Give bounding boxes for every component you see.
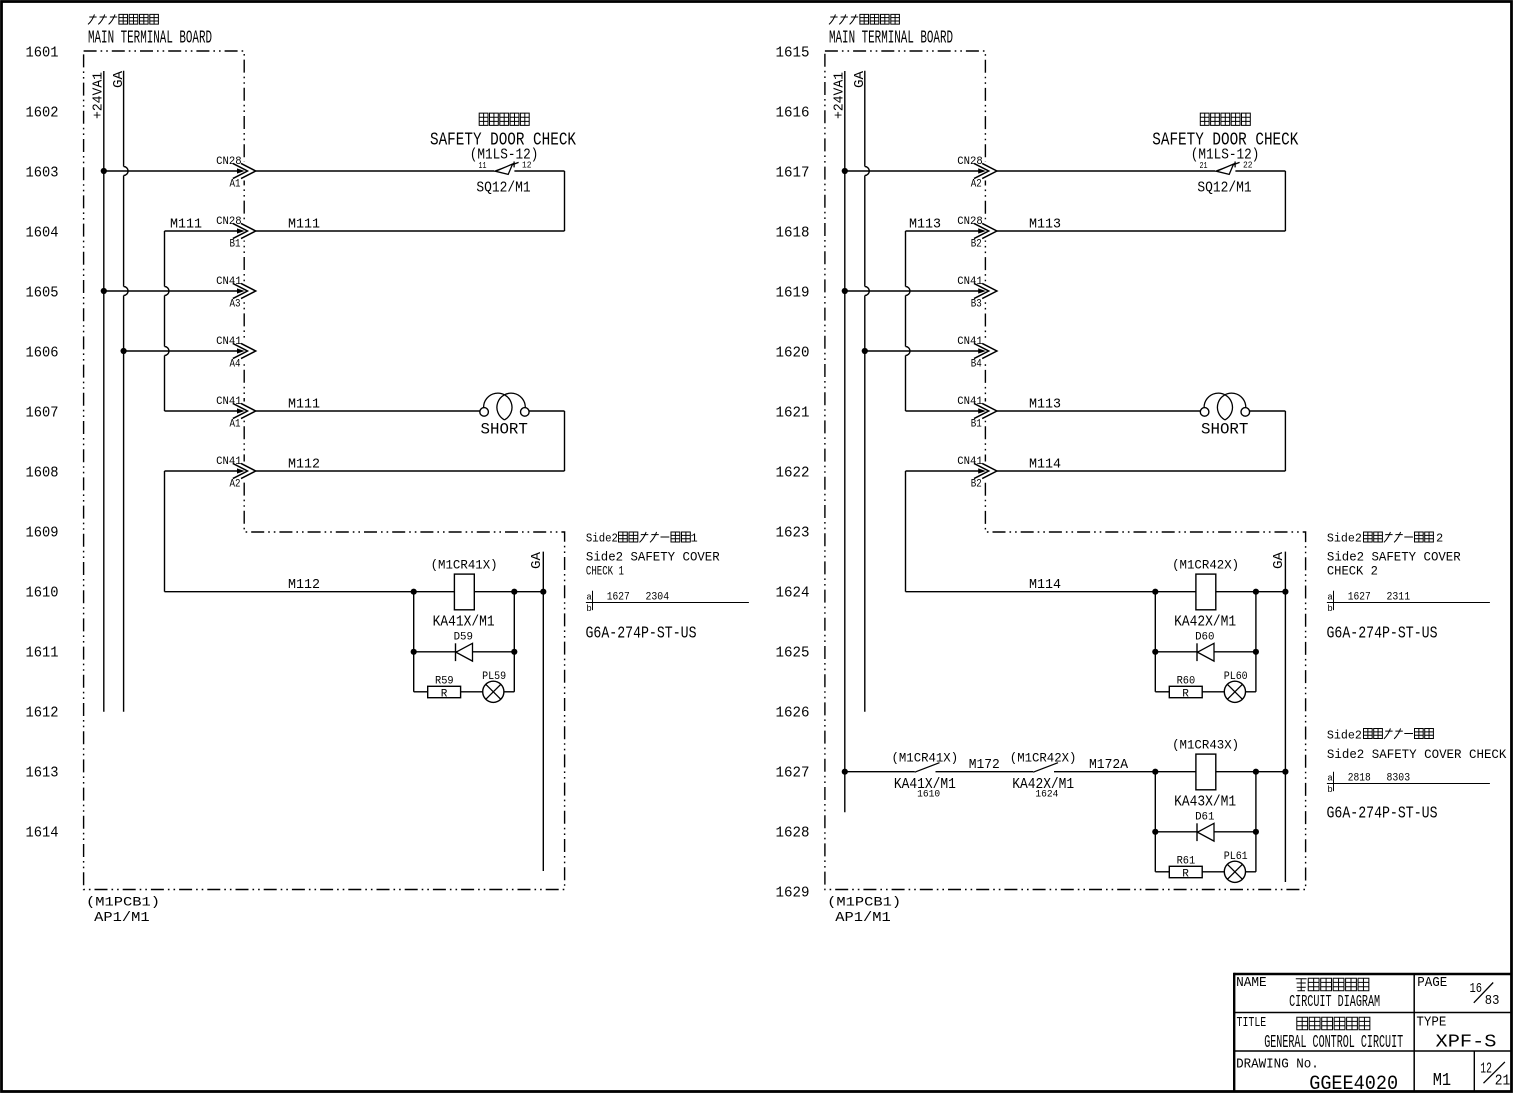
wire lamp to right branch — [1246, 871, 1256, 873]
wire 1622 field side — [997, 470, 1285, 472]
svg-text:1617: 1617 — [776, 165, 810, 182]
wire loop right vertical 1621-1622 — [1284, 411, 1286, 471]
wire 1617 board side — [845, 170, 986, 172]
svg-text:(M1CR42X): (M1CR42X) — [1172, 559, 1239, 573]
svg-text:1609: 1609 — [26, 525, 59, 542]
connector CN41 pin A1 — [233, 402, 256, 421]
svg-text:XPF-S: XPF-S — [1436, 1033, 1497, 1053]
board outline M1PCB1 right (dash-dot) — [825, 51, 1306, 890]
wire lamp to right branch — [1246, 691, 1256, 693]
connector CN28 pin B2 — [974, 222, 997, 241]
svg-text:MAIN TERMINAL BOARD: MAIN TERMINAL BOARD — [88, 29, 212, 49]
junction dot 1619 +24VA1 — [842, 288, 848, 294]
svg-text:M113: M113 — [1029, 397, 1061, 413]
svg-text:KA43X/M1: KA43X/M1 — [1174, 794, 1236, 811]
svg-text:CN28: CN28 — [957, 216, 983, 228]
svg-text:TYPE: TYPE — [1416, 1016, 1446, 1031]
label safety door check kanji left — [479, 113, 529, 125]
svg-text:GA: GA — [111, 70, 127, 88]
svg-text:1627: 1627 — [607, 592, 630, 604]
label circuit diagram kanji — [1296, 978, 1369, 991]
wire 1619 board side — [845, 290, 986, 292]
svg-text:83: 83 — [1485, 993, 1500, 1009]
svg-text:CHECK 2: CHECK 2 — [1327, 564, 1378, 579]
svg-text:1624: 1624 — [776, 585, 810, 602]
wire lamp to right branch — [504, 691, 514, 693]
svg-text:GA: GA — [852, 70, 868, 88]
svg-text:(M1LS-12): (M1LS-12) — [1191, 147, 1260, 164]
connector CN41 pin B3 — [974, 282, 997, 301]
svg-text:1624: 1624 — [1035, 790, 1058, 801]
svg-text:PAGE: PAGE — [1417, 976, 1447, 991]
svg-text:M111: M111 — [288, 217, 320, 233]
svg-text:M112: M112 — [288, 457, 320, 473]
sheet number 12/21 — [1480, 1062, 1510, 1090]
svg-text:1603: 1603 — [26, 165, 59, 182]
svg-text:SQ12/M1: SQ12/M1 — [1197, 181, 1251, 197]
wire node M111 branch vertical — [165, 231, 170, 411]
connector CN41 pin B4 — [974, 342, 997, 361]
svg-text:TITLE: TITLE — [1237, 1016, 1267, 1031]
contact KA41X/M1 (M1CR41X) — [915, 763, 940, 773]
svg-text:B2: B2 — [971, 478, 982, 490]
svg-text:b: b — [1327, 785, 1332, 795]
connector CN28 pin B1 — [233, 222, 256, 241]
contact KA42X/M1 (M1CR42X) — [1033, 763, 1058, 773]
svg-text:KA42X/M1: KA42X/M1 — [1174, 614, 1236, 631]
diode D60 — [1196, 643, 1198, 661]
svg-text:Side2: Side2 — [1327, 532, 1362, 546]
svg-text:(M1CR41X): (M1CR41X) — [892, 752, 959, 766]
svg-text:a: a — [1327, 593, 1333, 603]
svg-text:1618: 1618 — [776, 225, 810, 242]
svg-text:M114: M114 — [1029, 577, 1061, 593]
wire (M1CR43X) branch verticals — [1154, 772, 1156, 872]
svg-text:R59: R59 — [435, 676, 454, 688]
svg-text:1611: 1611 — [26, 645, 59, 662]
svg-text:1602: 1602 — [26, 105, 59, 122]
wire 1621 field side — [997, 410, 1201, 412]
svg-text:1607: 1607 — [26, 405, 59, 422]
svg-text:1612: 1612 — [26, 705, 59, 722]
svg-text:G6A-274P-ST-US: G6A-274P-ST-US — [1327, 625, 1438, 644]
svg-text:1610: 1610 — [26, 585, 59, 602]
wire 1608 field side — [256, 470, 565, 472]
junction dots (M1CR41X) — [411, 589, 417, 595]
svg-text:B1: B1 — [971, 418, 982, 430]
wire 1618 board side — [906, 230, 986, 232]
cross reference 1627 2304 — [586, 591, 749, 614]
svg-text:1629: 1629 — [776, 885, 810, 902]
svg-text:M172A: M172A — [1089, 757, 1129, 773]
wire node M112 vertical to 1610 — [164, 471, 166, 592]
svg-text:R: R — [441, 689, 448, 701]
svg-text:NAME: NAME — [1236, 976, 1267, 991]
svg-text:1610: 1610 — [917, 790, 940, 801]
svg-text:21: 21 — [1495, 1074, 1511, 1090]
svg-text:M113: M113 — [1029, 217, 1061, 233]
connector CN28 pin A1 — [233, 162, 256, 181]
lamp PL59 — [461, 691, 483, 693]
svg-text:A1: A1 — [230, 178, 241, 190]
label general control circuit kanji — [1297, 1017, 1370, 1030]
svg-text:2818: 2818 — [1348, 773, 1371, 785]
svg-text:B1: B1 — [230, 238, 241, 250]
wire 1603 field side to switch — [256, 170, 495, 172]
junction dots (M1CR43X) — [1152, 769, 1158, 775]
limit switch SQ12/M1 right — [1216, 162, 1239, 175]
svg-text:R60: R60 — [1177, 676, 1196, 688]
svg-text:16: 16 — [1470, 981, 1483, 997]
label Side2 cover check 2 kanji — [1327, 532, 1443, 546]
svg-text:R61: R61 — [1177, 856, 1196, 868]
svg-text:AP1/M1: AP1/M1 — [835, 911, 891, 926]
svg-text:M113: M113 — [909, 217, 941, 233]
wire diode row — [1155, 651, 1256, 653]
cross reference 1627 2311 — [1327, 591, 1490, 614]
svg-text:M172: M172 — [969, 757, 1000, 773]
wire 1618 field side — [997, 230, 1285, 232]
svg-text:(M1LS-12): (M1LS-12) — [470, 147, 539, 164]
svg-text:M111: M111 — [288, 397, 320, 413]
connector CN41 pin B1 — [974, 402, 997, 421]
svg-text:A3: A3 — [230, 298, 241, 310]
lamp PL60 — [1202, 691, 1224, 693]
svg-text:M1: M1 — [1433, 1070, 1451, 1091]
svg-text:A4: A4 — [230, 358, 241, 370]
svg-text:2311: 2311 — [1387, 592, 1411, 604]
svg-text:+24VA1: +24VA1 — [832, 72, 848, 119]
svg-text:KA41X/M1: KA41X/M1 — [433, 614, 495, 631]
page number 16/83 — [1470, 981, 1500, 1009]
svg-text:1604: 1604 — [26, 225, 59, 242]
svg-text:CN41: CN41 — [957, 456, 983, 468]
svg-text:1616: 1616 — [776, 105, 810, 122]
svg-text:D60: D60 — [1195, 632, 1214, 644]
svg-text:CIRCUIT DIAGRAM: CIRCUIT DIAGRAM — [1289, 993, 1380, 1012]
svg-text:R: R — [1182, 869, 1189, 881]
net GA stub left — [542, 552, 544, 871]
junction dot 1624 GA — [1282, 589, 1288, 595]
wire (M1CR42X) branch verticals — [1154, 592, 1156, 692]
wire 1617 field side to switch — [997, 170, 1216, 172]
wire short to corner — [529, 410, 565, 412]
svg-text:CN41: CN41 — [957, 396, 983, 408]
wire switch to corner 1603 — [514, 170, 564, 172]
svg-text:B2: B2 — [971, 238, 982, 250]
wire diode row — [1155, 831, 1256, 833]
wire loop right vertical 1607-1608 — [564, 411, 566, 471]
power bus +24VA1 right — [844, 71, 846, 812]
svg-text:a: a — [586, 593, 592, 603]
diode D61 — [1196, 823, 1198, 841]
svg-text:2304: 2304 — [646, 592, 670, 604]
connector CN41 pin A3 — [233, 282, 256, 301]
svg-text:PL60: PL60 — [1224, 671, 1248, 683]
svg-text:A2: A2 — [230, 478, 241, 490]
svg-text:8303: 8303 — [1387, 773, 1411, 785]
svg-text:B4: B4 — [971, 358, 982, 370]
row number labels 1615-1629 — [776, 45, 810, 902]
svg-text:M112: M112 — [288, 577, 320, 593]
jumper SHORT left — [480, 393, 529, 420]
wire 1605 board side — [104, 290, 244, 292]
svg-text:1619: 1619 — [776, 285, 810, 302]
svg-text:1: 1 — [691, 532, 698, 546]
cross reference 2818 8303 — [1327, 772, 1490, 795]
wire (M1CR41X) branch verticals — [413, 592, 415, 692]
svg-text:DRAWING No.: DRAWING No. — [1236, 1057, 1319, 1072]
svg-text:(M1PCB1): (M1PCB1) — [827, 895, 901, 910]
svg-text:SQ12/M1: SQ12/M1 — [476, 181, 530, 197]
svg-text:A1: A1 — [230, 418, 241, 430]
svg-text:PL61: PL61 — [1224, 851, 1248, 863]
wire M172A segment — [1054, 771, 1285, 773]
limit switch SQ12/M1 left — [495, 162, 518, 175]
connector CN41 pin A4 — [233, 342, 256, 361]
junction dots (M1CR42X) — [1152, 589, 1158, 595]
svg-text:1628: 1628 — [776, 825, 810, 842]
svg-text:Side2 SAFETY COVER: Side2 SAFETY COVER — [586, 550, 720, 565]
wire 1604 field side — [256, 230, 565, 232]
label safety door check kanji right — [1200, 113, 1250, 125]
junction dot 1610 GA — [540, 589, 546, 595]
wire 1606 board side — [124, 350, 245, 352]
wire 1610 M112 row — [165, 591, 544, 593]
svg-text:MAIN TERMINAL BOARD: MAIN TERMINAL BOARD — [829, 29, 953, 49]
net GA stub right — [1284, 552, 1286, 882]
junction dot 1617 +24VA1 — [842, 168, 848, 174]
wire 1608 board side — [165, 470, 245, 472]
relay coil KA42X/M1 — [1196, 574, 1216, 610]
svg-text:SHORT: SHORT — [1201, 421, 1248, 439]
wire 1603 board side — [104, 170, 244, 172]
lamp PL61 — [1202, 871, 1224, 873]
svg-text:1614: 1614 — [26, 825, 59, 842]
junction dot 1627 +24VA1 — [842, 769, 848, 775]
svg-text:1606: 1606 — [26, 345, 59, 362]
svg-text:1625: 1625 — [776, 645, 810, 662]
power bus GA left — [124, 71, 129, 712]
svg-text:b: b — [586, 604, 591, 614]
svg-text:PL59: PL59 — [482, 671, 506, 683]
svg-text:+24VA1: +24VA1 — [91, 72, 107, 119]
svg-text:SHORT: SHORT — [481, 421, 528, 439]
connector CN41 pin A2 — [233, 462, 256, 481]
svg-text:G6A-274P-ST-US: G6A-274P-ST-US — [1327, 805, 1438, 824]
svg-text:Side2 SAFETY COVER CHECK: Side2 SAFETY COVER CHECK — [1327, 747, 1507, 762]
svg-text:(M1PCB1): (M1PCB1) — [86, 895, 160, 910]
svg-text:(M1CR43X): (M1CR43X) — [1172, 739, 1239, 753]
junction dot 1605 +24VA1 — [101, 288, 107, 294]
svg-text:CHECK 1: CHECK 1 — [586, 564, 624, 579]
wire diode row — [414, 651, 515, 653]
label main terminal board kanji right — [829, 14, 899, 24]
svg-text:GGEE4020: GGEE4020 — [1309, 1073, 1398, 1094]
wire M172 segment — [936, 771, 1034, 773]
svg-text:1620: 1620 — [776, 345, 810, 362]
svg-text:GENERAL CONTROL CIRCUIT: GENERAL CONTROL CIRCUIT — [1264, 1033, 1403, 1053]
wire 1624 M114 row — [906, 591, 1286, 593]
wire 1627 from +24VA1 — [845, 771, 915, 773]
wire node M113 branch vertical — [906, 231, 911, 411]
resistor R61 — [1155, 871, 1169, 873]
wire 1620 board side — [865, 350, 986, 352]
svg-text:(M1CR41X): (M1CR41X) — [431, 559, 498, 573]
svg-text:D59: D59 — [454, 632, 473, 644]
svg-text:Side2: Side2 — [1327, 729, 1362, 743]
row number labels 1601-1614 — [26, 45, 59, 842]
power bus GA right — [865, 71, 870, 712]
svg-text:1621: 1621 — [776, 405, 810, 422]
label main terminal board kanji left — [88, 14, 158, 24]
wire loop right vertical 1617-1618 — [1284, 171, 1286, 231]
svg-text:D61: D61 — [1195, 812, 1215, 824]
svg-text:Side2: Side2 — [586, 532, 618, 546]
svg-text:CN28: CN28 — [957, 156, 983, 168]
junction dot 1620 GA — [862, 348, 868, 354]
jumper SHORT right — [1200, 393, 1249, 420]
board outline M1PCB1 left (dash-dot) — [84, 51, 565, 890]
svg-text:CN41: CN41 — [216, 336, 242, 348]
svg-text:M111: M111 — [170, 217, 202, 233]
junction dot 1606 GA — [121, 348, 127, 354]
svg-text:1601: 1601 — [26, 45, 59, 62]
resistor R60 — [1155, 691, 1169, 693]
relay coil KA43X/M1 — [1196, 754, 1216, 790]
wire switch to corner 1617 — [1235, 170, 1285, 172]
svg-text:CN41: CN41 — [216, 456, 242, 468]
svg-text:A2: A2 — [971, 178, 982, 190]
wire 1607 board side — [165, 410, 245, 412]
svg-text:1608: 1608 — [26, 465, 59, 482]
relay coil KA41X/M1 — [454, 574, 474, 610]
junction dot 1603 +24VA1 — [101, 168, 107, 174]
svg-text:AP1/M1: AP1/M1 — [94, 911, 150, 926]
svg-text:M114: M114 — [1029, 457, 1061, 473]
svg-text:a: a — [1327, 774, 1333, 784]
svg-text:G6A-274P-ST-US: G6A-274P-ST-US — [586, 625, 697, 644]
svg-text:B3: B3 — [971, 298, 982, 310]
wire 1604 board side — [165, 230, 245, 232]
svg-text:GA: GA — [529, 551, 545, 569]
svg-text:1615: 1615 — [776, 45, 810, 62]
svg-text:2: 2 — [1436, 532, 1443, 546]
label Side2 cover check 1 kanji — [586, 532, 698, 546]
svg-text:1627: 1627 — [776, 765, 810, 782]
svg-text:CN41: CN41 — [957, 336, 983, 348]
svg-text:(M1CR42X): (M1CR42X) — [1010, 752, 1077, 766]
connector CN41 pin B2 — [974, 462, 997, 481]
svg-text:1623: 1623 — [776, 525, 810, 542]
svg-text:1622: 1622 — [776, 465, 810, 482]
connector CN28 pin A2 — [974, 162, 997, 181]
wire 1622 board side — [906, 470, 986, 472]
svg-text:CN41: CN41 — [957, 276, 983, 288]
resistor R59 — [414, 691, 428, 693]
svg-text:1626: 1626 — [776, 705, 810, 722]
svg-text:1605: 1605 — [26, 285, 59, 302]
svg-text:CN41: CN41 — [216, 396, 242, 408]
svg-text:Side2 SAFETY COVER: Side2 SAFETY COVER — [1327, 550, 1461, 565]
svg-text:CN28: CN28 — [216, 216, 242, 228]
title block frame — [1234, 973, 1510, 1092]
diode D59 — [455, 643, 457, 661]
svg-text:R: R — [1182, 689, 1189, 701]
wire node M114 vertical to 1624 — [905, 471, 907, 592]
junction dot 1627 GA — [1282, 769, 1288, 775]
wire short to corner right — [1249, 410, 1285, 412]
svg-text:b: b — [1327, 604, 1332, 614]
wire 1607 field side — [256, 410, 480, 412]
power bus +24VA1 left — [103, 71, 105, 712]
svg-text:CN28: CN28 — [216, 156, 242, 168]
wire loop right vertical 1603-1604 — [564, 171, 566, 231]
svg-text:12: 12 — [1480, 1062, 1492, 1078]
svg-text:GA: GA — [1271, 551, 1287, 569]
label Side2 cover check kanji 1627 — [1327, 728, 1434, 742]
svg-text:CN41: CN41 — [216, 276, 242, 288]
wire 1621 board side — [906, 410, 986, 412]
svg-text:1627: 1627 — [1348, 592, 1371, 604]
svg-text:1613: 1613 — [26, 765, 59, 782]
